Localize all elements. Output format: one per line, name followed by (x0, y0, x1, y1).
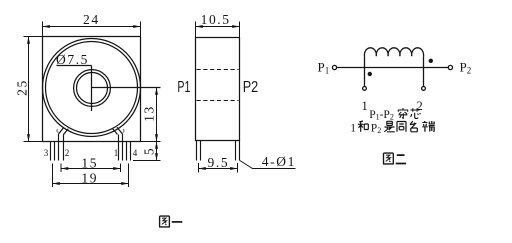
svg-text:9.5: 9.5 (208, 155, 230, 170)
dim 13 line (156, 88, 158, 142)
center hole outer circle (74, 70, 111, 107)
arrowheads dim 5 (155, 142, 158, 161)
arrowheads dim 13 (155, 88, 158, 142)
pin 2 terminal circle (422, 87, 426, 91)
dim 25 line (28, 37, 30, 142)
coil left leg to pin 1 (364, 56, 366, 87)
hanzi xin (core) (411, 108, 421, 118)
polarity dot near pin 1 (368, 72, 372, 76)
dim 15 line (61, 168, 121, 170)
polarity dot near pin 2 (429, 59, 433, 63)
svg-text:P2: P2 (460, 60, 472, 76)
hidden line lower (hole bottom) (197, 100, 239, 102)
svg-text:P1: P1 (177, 79, 190, 96)
dim 5 line (156, 142, 158, 161)
pin 4 (hollow) (127, 142, 131, 161)
svg-text:24: 24 (83, 12, 100, 27)
dim 13/5 extension lines right (133, 142, 161, 161)
svg-text:2: 2 (65, 148, 70, 158)
svg-text:P2: P2 (243, 79, 259, 96)
hanzi ming (name) (410, 121, 417, 132)
svg-text:1: 1 (114, 148, 119, 158)
leader line 4-phi-1 (240, 161, 296, 169)
pin 2 curl (gray) (57, 129, 58, 132)
inductor coil L1 (364, 48, 423, 56)
pin 1 terminal circle (363, 87, 367, 91)
pin 1 bent wire top (113, 127, 123, 134)
arrowheads dim 24 (43, 25, 141, 28)
pin 1 curl (gray) (123, 129, 124, 132)
hanzi chuan (pierce) (398, 108, 408, 118)
pin 1 (hollow) (119, 134, 123, 161)
hanzi yi (one) of tu-yi (172, 221, 183, 223)
svg-text:3: 3 (44, 148, 49, 158)
svg-text:19: 19 (81, 171, 98, 186)
dim 10.5 line (196, 26, 240, 28)
terminal P1 circle (332, 65, 336, 69)
dim 24 line (43, 26, 141, 28)
arrowheads dim 10.5 (196, 25, 240, 28)
arrowheads dim 25 (27, 37, 30, 142)
svg-text:10.5: 10.5 (201, 12, 231, 27)
hanzi tu (figure) of tu-er (383, 153, 394, 164)
toroid outer ring (outer circle) (43, 39, 141, 137)
center line to right (13 dim extension) (92, 87, 161, 89)
svg-text:1: 1 (350, 123, 356, 135)
hanzi he (and) (358, 121, 369, 132)
hanzi er (two) of tu-er (396, 155, 406, 163)
terminal P2 circle (448, 65, 452, 69)
leader line for hole diameter label (57, 66, 92, 112)
svg-text:4-Ø1: 4-Ø1 (262, 154, 296, 169)
pin 2 bent wire top (59, 127, 69, 134)
dim 10.5 extension lines (196, 22, 240, 38)
dim 19 line (53, 183, 129, 185)
svg-text:1: 1 (362, 99, 368, 113)
pin 3 (hollow) (51, 142, 55, 161)
svg-text:4: 4 (133, 148, 138, 158)
svg-text:25: 25 (15, 79, 30, 96)
dim 9.5 line (199, 168, 238, 170)
center hole inner circle (77, 73, 108, 104)
hidden line upper (hole top) (197, 69, 239, 71)
side body outline (196, 38, 240, 141)
coil right leg to pin 2 (423, 56, 425, 87)
arrowheads dim 19 (53, 182, 129, 185)
hanzi tong (same) (397, 122, 406, 132)
hanzi duan (end) (422, 121, 435, 132)
hanzi tu (figure) of tu-yi (159, 216, 170, 227)
svg-text:13: 13 (142, 105, 157, 122)
main wire P1-P2 (337, 67, 449, 69)
svg-text:Ø7.5: Ø7.5 (56, 52, 89, 67)
svg-text:P2: P2 (371, 123, 381, 136)
dim 25 extension lines (24, 37, 43, 142)
side pin left (hollow) (197, 141, 201, 161)
svg-text:P1: P1 (318, 60, 330, 76)
dim 15 extension lines (61, 164, 121, 173)
svg-text:P1-P2: P1-P2 (369, 109, 394, 122)
dim 24 extension lines (43, 22, 141, 37)
arrowheads dim 9.5 (199, 167, 238, 170)
toroid outer ring (inner circle) (46, 42, 138, 134)
arrowheads dim 15 (61, 167, 121, 170)
dim 19 extension lines (53, 164, 129, 188)
pin 2 (hollow) (59, 134, 64, 161)
side pin right (hollow) (236, 141, 240, 161)
hanzi shi (is) (384, 121, 395, 132)
svg-text:15: 15 (81, 156, 98, 171)
dim 9.5 extension lines (199, 163, 238, 173)
svg-text:5: 5 (141, 147, 156, 155)
case outline (square body) (43, 37, 141, 142)
